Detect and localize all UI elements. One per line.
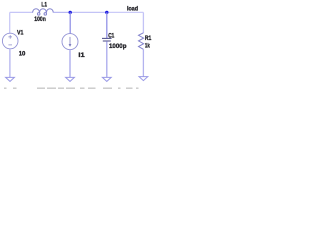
svg-text:L1: L1: [41, 1, 47, 8]
voltage source V1: [2, 33, 18, 49]
wire R1 bottom to ground: [142, 49, 144, 76]
inductor L1: [33, 9, 54, 15]
svg-text:100n: 100n: [34, 16, 46, 23]
ground below C1: [102, 77, 111, 81]
svg-text:V1: V1: [17, 30, 24, 37]
wire V1 bottom to ground: [9, 49, 11, 78]
wire C1 bottom to ground: [106, 41, 108, 77]
resistor R1: [139, 33, 144, 50]
node junction dot at C1 top (node load): [105, 11, 108, 14]
svg-text:load: load: [127, 5, 138, 12]
svg-text:1000p: 1000p: [109, 43, 127, 50]
svg-text:I1: I1: [78, 52, 85, 59]
wire V1 vertical top: [9, 12, 11, 33]
node junction dot at I1 top: [69, 11, 72, 14]
status bar text fragments: [4, 88, 139, 89]
wire I1 junction to C1 junction: [70, 11, 107, 13]
ground below I1: [66, 77, 75, 81]
ground below R1: [139, 77, 148, 81]
wire L1 to I1 junction: [53, 11, 70, 13]
wire I1 top: [69, 12, 71, 33]
wire C1 top: [106, 12, 108, 38]
wire load corner down to R1: [142, 12, 144, 33]
capacitor C1: [102, 38, 112, 41]
svg-text:C1: C1: [108, 32, 114, 39]
svg-text:1k: 1k: [145, 42, 150, 49]
wire C1 junction to load corner: [107, 11, 144, 13]
ground below V1: [6, 77, 15, 81]
wire top rail from V1 corner to L1: [10, 11, 33, 13]
current source I1: [62, 34, 78, 50]
svg-text:10: 10: [19, 51, 26, 58]
wire I1 bottom to ground: [69, 50, 71, 78]
svg-text:R1: R1: [145, 35, 152, 42]
